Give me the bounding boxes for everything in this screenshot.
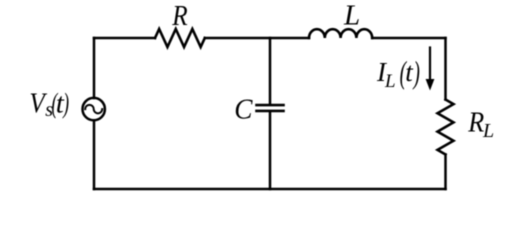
svg-text:L: L: [482, 120, 494, 142]
current arrow I_L(t) head: [426, 79, 435, 91]
voltage source V_s circle: [83, 98, 105, 120]
voltage source sine wave: [85, 105, 102, 114]
inductor L (4 arcs): [309, 29, 372, 38]
wire: top-middle horizontal segment: [205, 37, 309, 40]
wire: top-left horizontal segment: [94, 37, 155, 40]
label RL: [467, 105, 494, 142]
wire: left lower vertical segment: [93, 120, 96, 189]
svg-text:L: L: [384, 71, 396, 92]
svg-text:R: R: [171, 0, 188, 31]
wire: right lower vertical segment: [444, 155, 447, 190]
wire: right upper vertical segment: [444, 38, 447, 100]
current arrow I_L(t) shaft: [429, 48, 431, 83]
svg-text:L: L: [343, 0, 360, 32]
wire: left upper vertical segment: [93, 38, 96, 98]
wire: capacitor upper vertical segment: [269, 38, 272, 105]
resistor RL (vertical zigzag): [438, 100, 454, 155]
svg-text:R: R: [467, 105, 484, 138]
resistor R (zigzag): [155, 29, 205, 47]
wire: capacitor lower vertical segment: [269, 112, 272, 190]
label IL(t): [376, 54, 420, 92]
svg-text:): ): [412, 54, 420, 90]
svg-text:C: C: [234, 94, 253, 126]
label Vs(t): [29, 87, 69, 121]
wire: bottom horizontal segment: [94, 188, 446, 191]
capacitor C bottom plate: [257, 110, 284, 113]
capacitor C top plate: [257, 104, 284, 107]
svg-text:): ): [62, 88, 69, 120]
wire: top-right horizontal segment: [372, 37, 445, 40]
